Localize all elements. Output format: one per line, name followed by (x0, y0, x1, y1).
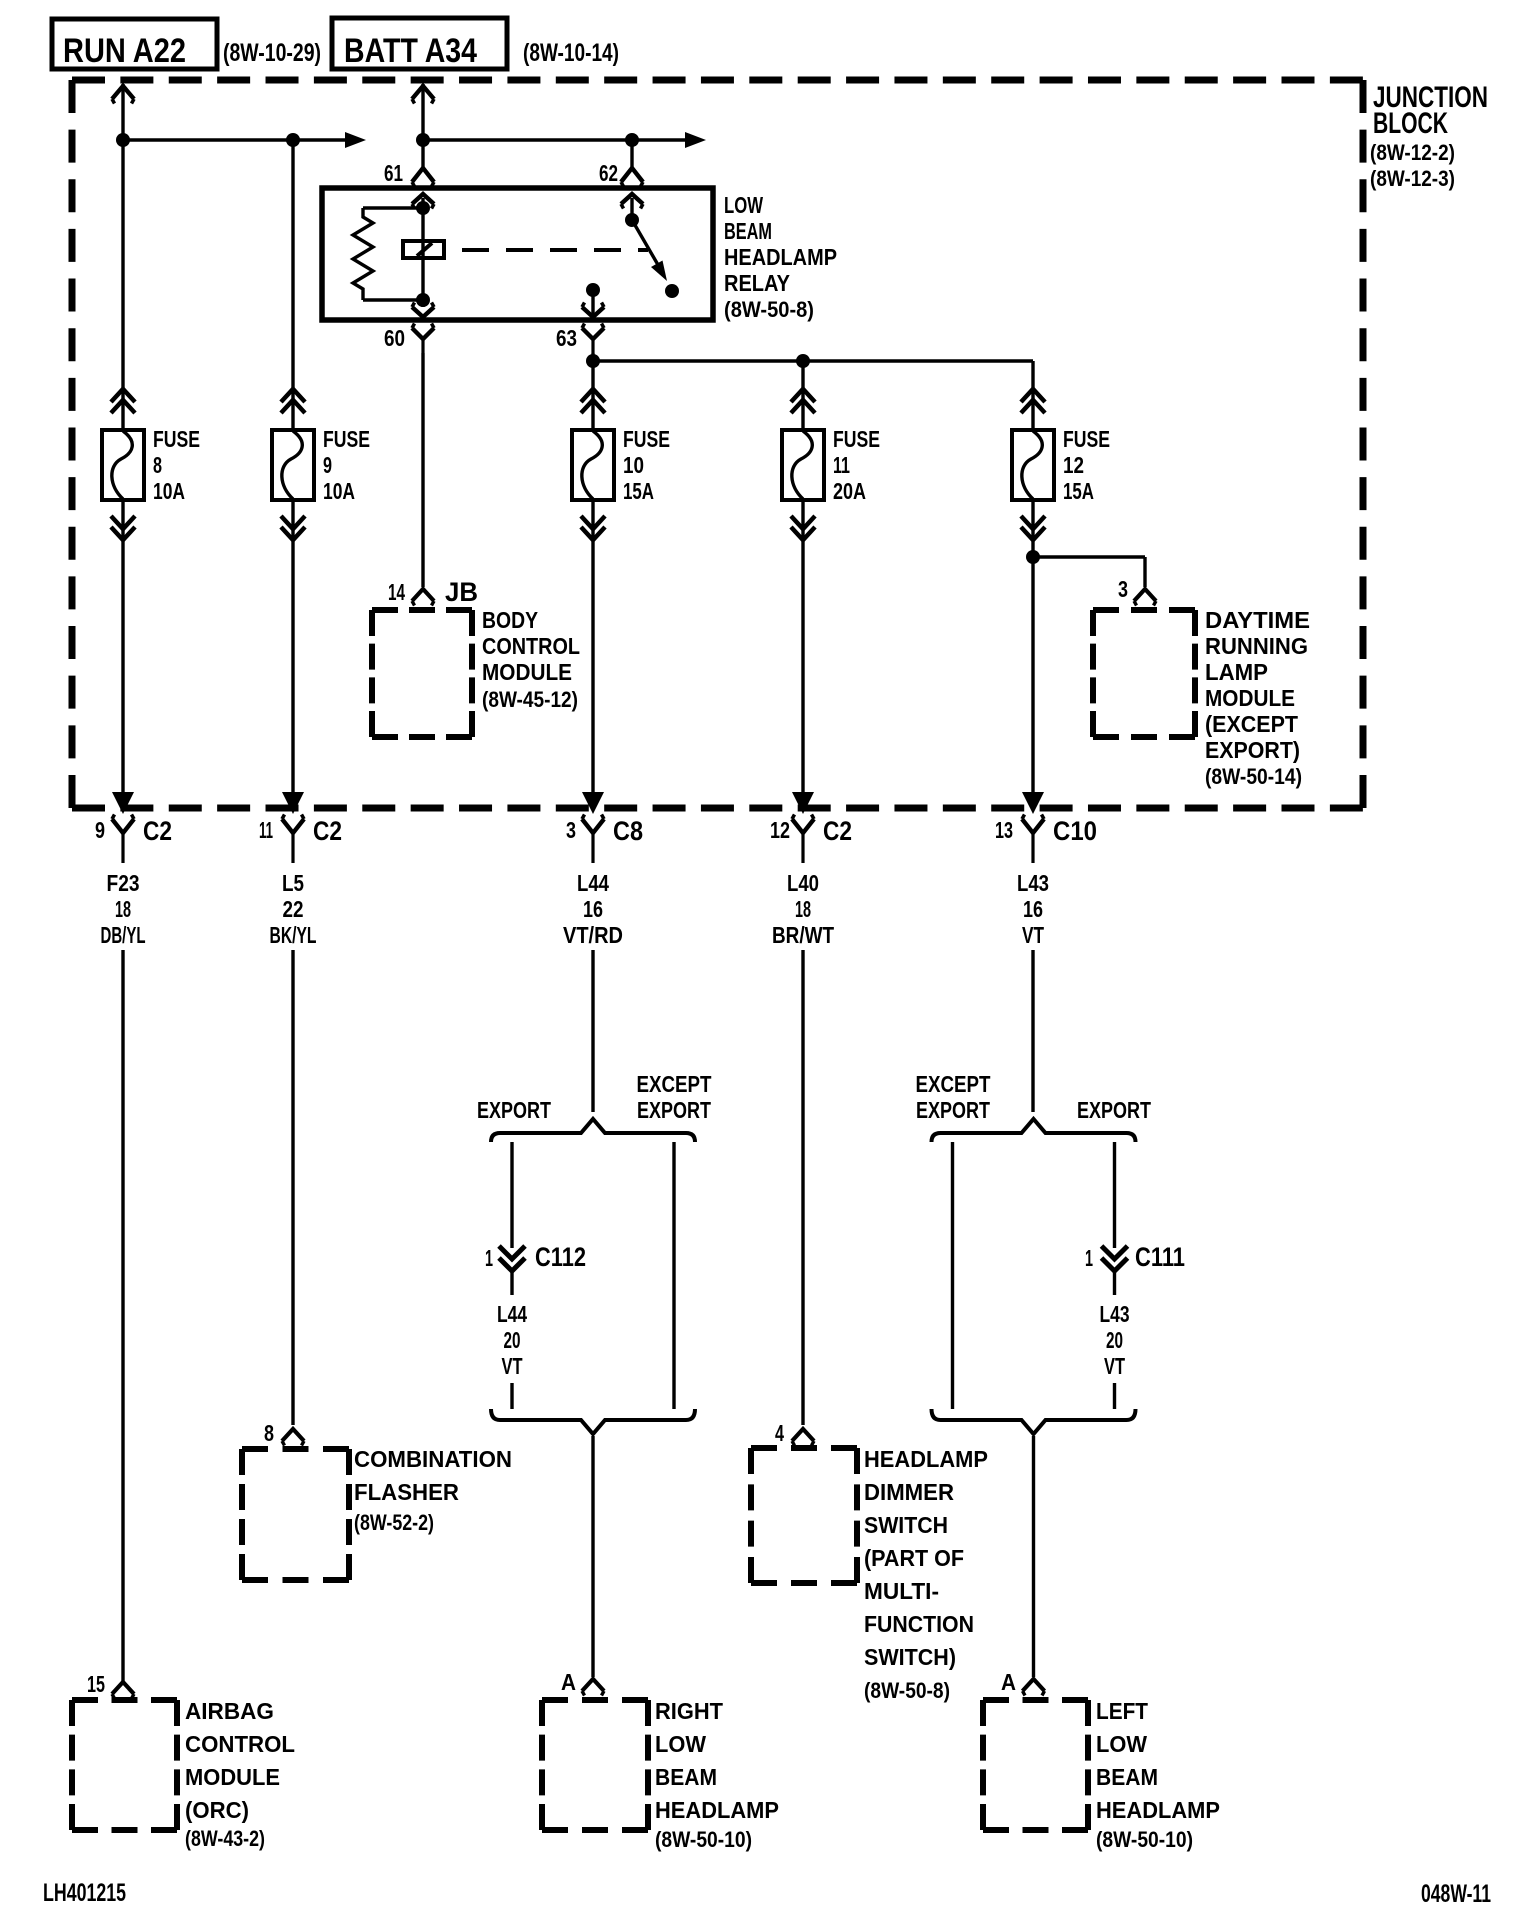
svg-text:20: 20 (1106, 1327, 1123, 1353)
svg-text:A: A (1001, 1669, 1016, 1695)
svg-text:MULTI-: MULTI- (864, 1578, 939, 1604)
svg-text:VT: VT (1022, 922, 1044, 948)
svg-text:(PART OF: (PART OF (864, 1545, 964, 1571)
svg-text:EXCEPT: EXCEPT (637, 1071, 712, 1097)
svg-text:048W-11: 048W-11 (1421, 1880, 1491, 1908)
svg-text:62: 62 (599, 160, 618, 186)
svg-text:10: 10 (623, 452, 644, 478)
svg-text:C2: C2 (823, 816, 852, 846)
svg-text:SWITCH: SWITCH (864, 1512, 948, 1538)
svg-text:FUSE: FUSE (153, 426, 200, 452)
svg-text:(8W-50-10): (8W-50-10) (655, 1827, 752, 1852)
svg-text:FUSE: FUSE (1063, 426, 1110, 452)
svg-text:(8W-43-2): (8W-43-2) (185, 1826, 265, 1851)
svg-text:EXPORT): EXPORT) (1205, 737, 1300, 763)
svg-text:JB: JB (445, 577, 478, 607)
svg-text:BR/WT: BR/WT (772, 922, 834, 948)
svg-text:(8W-12-2): (8W-12-2) (1370, 140, 1455, 165)
svg-text:(8W-52-2): (8W-52-2) (354, 1510, 434, 1535)
svg-text:HEADLAMP: HEADLAMP (1096, 1797, 1220, 1823)
svg-text:15A: 15A (623, 478, 654, 504)
svg-text:(8W-12-3): (8W-12-3) (1370, 166, 1455, 191)
svg-text:13: 13 (995, 817, 1013, 843)
svg-text:63: 63 (556, 325, 577, 351)
svg-text:15: 15 (87, 1671, 105, 1697)
svg-text:HEADLAMP: HEADLAMP (655, 1797, 779, 1823)
svg-text:EXPORT: EXPORT (637, 1097, 711, 1123)
svg-text:EXPORT: EXPORT (916, 1097, 990, 1123)
svg-text:16: 16 (1023, 896, 1043, 922)
svg-text:LH401215: LH401215 (43, 1879, 126, 1907)
svg-text:RUNNING: RUNNING (1205, 633, 1308, 659)
svg-text:20: 20 (504, 1327, 521, 1353)
svg-text:A: A (561, 1669, 576, 1695)
svg-text:C111: C111 (1135, 1242, 1185, 1272)
svg-text:LOW: LOW (724, 192, 763, 218)
svg-text:8: 8 (153, 452, 162, 478)
svg-text:COMBINATION: COMBINATION (354, 1446, 512, 1472)
svg-text:18: 18 (115, 896, 131, 922)
svg-text:BATT A34: BATT A34 (344, 32, 477, 70)
svg-text:HEADLAMP: HEADLAMP (864, 1446, 988, 1472)
svg-text:LOW: LOW (655, 1731, 706, 1757)
svg-text:(8W-50-8): (8W-50-8) (864, 1678, 950, 1703)
svg-text:(8W-10-29): (8W-10-29) (223, 39, 321, 67)
svg-text:VT: VT (1104, 1353, 1125, 1379)
svg-text:3: 3 (566, 817, 576, 843)
svg-text:FUSE: FUSE (833, 426, 880, 452)
svg-text:L43: L43 (1017, 870, 1049, 896)
svg-text:3: 3 (1118, 576, 1128, 602)
svg-text:LEFT: LEFT (1096, 1698, 1148, 1724)
svg-text:VT/RD: VT/RD (563, 922, 623, 948)
svg-text:18: 18 (795, 896, 811, 922)
svg-text:RIGHT: RIGHT (655, 1698, 723, 1724)
svg-text:9: 9 (323, 452, 332, 478)
svg-text:BODY: BODY (482, 607, 538, 633)
svg-text:(8W-50-10): (8W-50-10) (1096, 1827, 1193, 1852)
svg-text:20A: 20A (833, 478, 866, 504)
svg-text:AIRBAG: AIRBAG (185, 1698, 274, 1724)
svg-text:DB/YL: DB/YL (101, 922, 146, 948)
svg-text:MODULE: MODULE (1205, 685, 1295, 711)
svg-text:EXCEPT: EXCEPT (916, 1071, 991, 1097)
svg-text:(8W-50-8): (8W-50-8) (724, 297, 814, 322)
svg-text:16: 16 (583, 896, 603, 922)
svg-text:11: 11 (259, 817, 273, 843)
svg-text:9: 9 (95, 817, 105, 843)
svg-text:(EXCEPT: (EXCEPT (1205, 711, 1298, 737)
svg-text:L44: L44 (497, 1301, 527, 1327)
svg-text:C8: C8 (613, 816, 643, 846)
svg-text:BEAM: BEAM (1096, 1764, 1158, 1790)
svg-text:22: 22 (283, 896, 304, 922)
svg-text:BK/YL: BK/YL (270, 922, 317, 948)
svg-text:LAMP: LAMP (1205, 659, 1268, 685)
svg-text:1: 1 (1085, 1245, 1093, 1271)
svg-text:F23: F23 (107, 870, 140, 896)
svg-text:MODULE: MODULE (482, 659, 572, 685)
svg-text:MODULE: MODULE (185, 1764, 280, 1790)
svg-text:(8W-10-14): (8W-10-14) (523, 39, 619, 67)
svg-text:CONTROL: CONTROL (482, 633, 580, 659)
svg-text:RUN A22: RUN A22 (63, 32, 186, 70)
svg-text:FUSE: FUSE (323, 426, 370, 452)
svg-text:DAYTIME: DAYTIME (1205, 607, 1310, 633)
svg-text:BEAM: BEAM (655, 1764, 717, 1790)
svg-text:1: 1 (485, 1245, 493, 1271)
svg-text:(ORC): (ORC) (185, 1797, 249, 1823)
svg-text:HEADLAMP: HEADLAMP (724, 244, 837, 270)
svg-text:10A: 10A (323, 478, 355, 504)
svg-text:SWITCH): SWITCH) (864, 1644, 956, 1670)
svg-text:10A: 10A (153, 478, 185, 504)
svg-text:14: 14 (388, 579, 405, 605)
svg-text:L5: L5 (282, 870, 304, 896)
svg-text:FLASHER: FLASHER (354, 1479, 459, 1505)
svg-text:4: 4 (775, 1420, 784, 1446)
svg-text:12: 12 (770, 817, 790, 843)
svg-text:EXPORT: EXPORT (1077, 1097, 1151, 1123)
svg-text:BEAM: BEAM (724, 218, 772, 244)
svg-text:VT: VT (502, 1353, 523, 1379)
svg-text:C2: C2 (143, 816, 172, 846)
svg-text:(8W-45-12): (8W-45-12) (482, 687, 578, 712)
svg-text:(8W-50-14): (8W-50-14) (1205, 764, 1302, 789)
svg-text:61: 61 (384, 160, 403, 186)
svg-text:LOW: LOW (1096, 1731, 1147, 1757)
svg-text:C112: C112 (535, 1242, 586, 1272)
svg-text:11: 11 (833, 452, 850, 478)
svg-text:BLOCK: BLOCK (1373, 107, 1448, 140)
svg-text:FUSE: FUSE (623, 426, 670, 452)
svg-text:8: 8 (264, 1420, 274, 1446)
svg-text:C2: C2 (313, 816, 342, 846)
svg-text:FUNCTION: FUNCTION (864, 1611, 974, 1637)
svg-text:12: 12 (1063, 452, 1084, 478)
svg-text:L43: L43 (1100, 1301, 1130, 1327)
svg-text:RELAY: RELAY (724, 270, 790, 296)
svg-text:C10: C10 (1053, 816, 1097, 846)
svg-text:L40: L40 (787, 870, 819, 896)
svg-text:60: 60 (384, 325, 405, 351)
svg-text:CONTROL: CONTROL (185, 1731, 295, 1757)
svg-text:15A: 15A (1063, 478, 1094, 504)
svg-text:DIMMER: DIMMER (864, 1479, 954, 1505)
svg-text:L44: L44 (577, 870, 609, 896)
svg-text:EXPORT: EXPORT (477, 1097, 551, 1123)
